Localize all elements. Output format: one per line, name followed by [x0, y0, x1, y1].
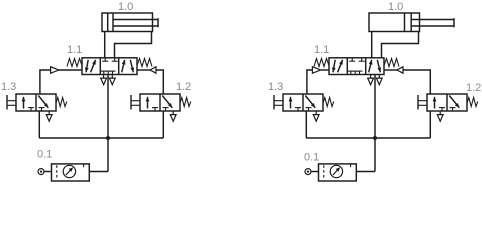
- valve 1.1 exhaust 5: [370, 75, 372, 79]
- cylinder 1.0 piston: [404, 13, 406, 32]
- wire supply bus: [39, 137, 163, 139]
- valve 1.1 left pilot triangle: [312, 67, 320, 73]
- pressure gauge 0.1: [63, 165, 75, 177]
- valve 1.1 left pilot line from valve 1.3: [307, 70, 313, 94]
- valve 1.2 body: [427, 94, 467, 111]
- valve 1.1 right box arrows: [369, 60, 372, 73]
- wire valve 1.1 port 1 supply line: [374, 75, 376, 172]
- wire valve 1.2 supply: [429, 111, 431, 138]
- valve 1.1 left return spring: [314, 59, 329, 67]
- valve 1.1 right return spring: [384, 59, 399, 67]
- cylinder 1.0 piston rod: [113, 19, 158, 21]
- wire source to service unit: [44, 171, 52, 173]
- valve 1.2 right box: [162, 96, 172, 108]
- svg-text:0.1: 0.1: [304, 152, 319, 164]
- valve 1.2 pushbutton: [417, 95, 419, 110]
- wire supply bus: [306, 137, 430, 139]
- service unit drain tick: [83, 164, 85, 167]
- valve 1.2 exhaust: [439, 111, 441, 115]
- valve 1.2 pushbutton: [130, 95, 132, 110]
- valve U1.1 body: [82, 58, 137, 75]
- valve U1.1 body: [329, 58, 384, 75]
- wire valve 1.3 supply: [305, 111, 307, 138]
- valve 1.1 exhaust 5: [103, 75, 105, 79]
- valve 1.2 left box: [147, 97, 149, 109]
- wire valve 1.1 port 1 supply line: [107, 75, 109, 172]
- valve 1.3 body: [283, 94, 323, 111]
- valve 1.1 left pilot line from valve 1.3: [40, 70, 51, 94]
- svg-text:1.2: 1.2: [466, 82, 481, 94]
- svg-text:1.2: 1.2: [176, 81, 191, 93]
- valve 1.1 right pilot line from valve 1.2: [403, 70, 430, 94]
- svg-text:1.1: 1.1: [314, 44, 329, 56]
- junction node supply: [373, 136, 377, 140]
- valve 1.1 exhaust 3: [378, 75, 380, 79]
- wire cylinder port A to valve 1.1 port 4: [371, 32, 373, 59]
- valve 1.3 body: [16, 94, 56, 111]
- wire service unit to supply line: [89, 171, 108, 173]
- wire valve 1.2 supply: [162, 111, 164, 138]
- valve 1.2 left box: [434, 97, 436, 109]
- valve 1.1 left pilot triangle: [51, 67, 59, 73]
- junction node supply: [106, 136, 110, 140]
- compressed air source 0.1: [305, 169, 311, 175]
- wire cylinder port B to valve 1.1 port 2: [382, 32, 419, 59]
- wire cylinder port B to valve 1.1 port 2: [115, 32, 152, 59]
- cylinder 1.0 barrel: [102, 13, 153, 32]
- valve 1.3 pushbutton: [273, 95, 275, 110]
- service unit drain tick: [350, 164, 352, 167]
- valve 1.2 exhaust: [172, 111, 174, 115]
- valve 1.1 left box arrows: [333, 60, 335, 73]
- air service unit 0.1 box: [319, 164, 357, 181]
- wire source to service unit: [311, 171, 319, 173]
- svg-text:1.3: 1.3: [268, 81, 283, 93]
- svg-text:0.1: 0.1: [37, 149, 52, 161]
- cylinder 1.0 piston: [107, 13, 109, 32]
- valve 1.1 right pilot triangle: [137, 69, 150, 71]
- valve 1.1 right box arrows: [122, 60, 125, 73]
- valve 1.1 exhaust 3: [111, 75, 113, 79]
- valve 1.3 right box: [305, 96, 315, 108]
- pressure gauge 0.1: [330, 165, 342, 177]
- valve 1.1 right pilot triangle: [384, 69, 397, 71]
- valve 1.2 return spring: [467, 98, 478, 107]
- valve 1.1 left box arrows: [86, 60, 88, 73]
- valve 1.1 right return spring: [137, 59, 152, 67]
- air service unit 0.1 box: [52, 164, 90, 181]
- valve 1.1 left return spring: [67, 59, 82, 67]
- valve 1.3 left box: [290, 97, 292, 109]
- wire service unit to supply line: [356, 171, 375, 173]
- cylinder 1.0 barrel: [369, 13, 420, 32]
- valve 1.3 left box: [23, 97, 25, 109]
- wire cylinder port A to valve 1.1 port 4: [104, 32, 106, 59]
- valve 1.3 return spring: [323, 98, 334, 107]
- valve 1.3 exhaust: [315, 111, 317, 115]
- svg-text:1.0: 1.0: [118, 1, 133, 13]
- valve 1.1 middle box blocked ports: [104, 58, 106, 61]
- cylinder 1.0 piston rod: [411, 19, 454, 21]
- valve 1.2 return spring: [180, 98, 191, 107]
- valve 1.2 body: [140, 94, 180, 111]
- wire valve 1.3 supply: [38, 111, 40, 138]
- valve 1.3 exhaust: [48, 111, 50, 115]
- compressed air source 0.1: [38, 169, 44, 175]
- valve 1.3 right box: [38, 96, 48, 108]
- valve 1.3 return spring: [56, 98, 67, 107]
- svg-text:1.1: 1.1: [67, 44, 82, 56]
- valve 1.1 right pilot line from valve 1.2: [156, 70, 163, 94]
- svg-text:1.0: 1.0: [388, 1, 403, 13]
- valve 1.3 pushbutton: [6, 95, 8, 110]
- valve 1.1 middle box blocked ports: [351, 58, 353, 61]
- valve 1.2 right box: [449, 96, 459, 108]
- svg-text:1.3: 1.3: [1, 81, 16, 93]
